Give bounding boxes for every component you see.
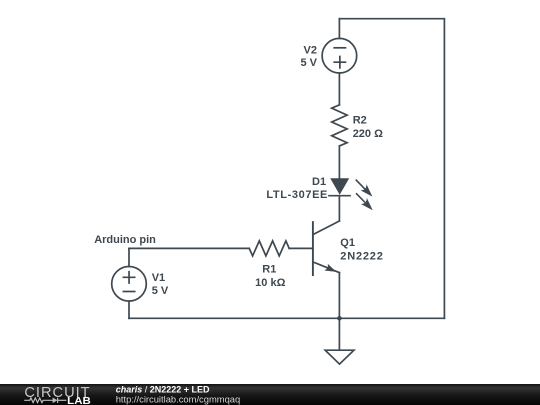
svg-text:2N2222: 2N2222 bbox=[340, 251, 383, 263]
svg-text:http://circuitlab.com/cgmmqaq: http://circuitlab.com/cgmmqaq bbox=[116, 393, 241, 404]
svg-text:LTL-307EE: LTL-307EE bbox=[266, 189, 328, 201]
svg-text:D1: D1 bbox=[312, 176, 326, 188]
svg-text:R2: R2 bbox=[353, 114, 367, 126]
svg-text:10 kΩ: 10 kΩ bbox=[255, 277, 285, 289]
svg-text:R1: R1 bbox=[262, 264, 276, 276]
svg-text:220 Ω: 220 Ω bbox=[353, 128, 383, 140]
svg-text:Q1: Q1 bbox=[340, 237, 355, 249]
svg-text:Arduino pin: Arduino pin bbox=[94, 234, 156, 246]
svg-text:5 V: 5 V bbox=[152, 285, 169, 297]
svg-text:V2: V2 bbox=[304, 45, 317, 57]
svg-text:V1: V1 bbox=[152, 272, 165, 284]
svg-text:LAB: LAB bbox=[67, 395, 91, 405]
svg-text:5 V: 5 V bbox=[300, 57, 317, 69]
